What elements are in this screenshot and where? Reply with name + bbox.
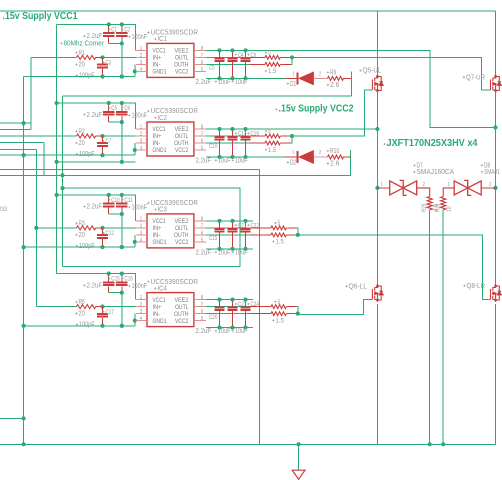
capacitor C9 — [245, 50, 247, 58]
pin 6 IC2 — [194, 142, 206, 144]
svg-text:2: 2 — [140, 131, 142, 137]
label R6 — [75, 301, 77, 303]
op-amp ic label row1 — [147, 31, 149, 33]
resistor R6 — [77, 305, 96, 309]
IC IC2 UCC5390SCDR body — [147, 122, 194, 156]
junction gnd bus row2 100pF line — [22, 153, 26, 157]
ground — [298, 444, 300, 470]
svg-text:C3: C3 — [106, 60, 112, 67]
wire row2 OUTH line — [206, 142, 250, 144]
wire row4 gnd line — [24, 325, 135, 327]
pin 3 IC2 — [136, 142, 147, 144]
wire stub drop x=43.8 — [43, 142, 45, 175]
op-amp ic label row4 — [147, 281, 149, 283]
pin 3 IC1 — [136, 63, 147, 65]
wire row1 gnd line — [24, 76, 135, 78]
svg-text:3: 3 — [140, 60, 142, 66]
junction IN+ bus / R3 lead — [34, 226, 38, 230]
pin 8 IC1 — [194, 49, 206, 51]
svg-text:VCC1: VCC1 — [153, 126, 166, 133]
svg-text:100nF: 100nF — [132, 204, 148, 211]
svg-text:3: 3 — [140, 138, 142, 144]
wire row2 gnd line — [0, 154, 135, 156]
svg-text:1.5: 1.5 — [268, 147, 277, 154]
pin 7 IC4 — [194, 306, 206, 308]
svg-text:2.2uF: 2.2uF — [196, 249, 212, 256]
junction bypass joint row3 — [120, 212, 124, 216]
junction gnd bus row4 100pF line — [22, 324, 26, 328]
wire VCC2 rail row2 — [63, 95, 352, 97]
capacitor C5 — [108, 103, 110, 112]
wire IC2 VEE2 line to Q5 source — [206, 128, 377, 130]
svg-text:C21: C21 — [238, 222, 247, 229]
op-amp ic label row2 — [147, 110, 149, 112]
svg-text:C15: C15 — [111, 276, 120, 283]
junction rail C2 — [120, 22, 124, 26]
svg-text:1: 1 — [140, 295, 142, 301]
capacitor C16 — [121, 274, 123, 283]
svg-text:4: 4 — [140, 316, 142, 322]
junction gnd C3 — [100, 75, 104, 79]
svg-text:C1: C1 — [111, 26, 117, 33]
wire R2 to pin2 — [103, 135, 141, 137]
svg-text:20: 20 — [79, 311, 85, 318]
svg-text:100pF: 100pF — [79, 243, 95, 250]
svg-text:2.2uF: 2.2uF — [87, 112, 103, 119]
wire IC1 VEE2 route to Q7 source — [206, 50, 496, 127]
wire row4 gate line to Q6 — [298, 299, 373, 314]
svg-text:C5: C5 — [111, 105, 117, 112]
svg-text:.15v Supply VCC1: .15v Supply VCC1 — [3, 11, 79, 22]
capacitor C6 — [121, 103, 123, 112]
capacitor C15 — [108, 274, 110, 283]
wire row1 pin3 tie — [134, 64, 136, 76]
wire row3 VEE2 line — [206, 220, 253, 222]
diode D1 — [286, 77, 298, 79]
capacitor C17 — [102, 307, 104, 314]
junction right bus / D8 — [493, 186, 497, 190]
junction bypass bus row2 rail — [55, 101, 59, 105]
svg-text:4: 4 — [140, 145, 142, 151]
svg-text:C23: C23 — [238, 301, 247, 308]
svg-text:100pF: 100pF — [79, 322, 95, 329]
svg-text:2.6: 2.6 — [330, 161, 339, 168]
svg-text:5: 5 — [201, 316, 203, 322]
svg-text:10uF: 10uF — [218, 328, 230, 335]
wire gate join row2 — [280, 142, 290, 144]
resistor gate 1.5 ohm row4 — [271, 312, 286, 316]
wire row3 OUTL line — [206, 227, 250, 229]
svg-text:20: 20 — [79, 140, 85, 147]
pin 8 IC2 — [194, 128, 206, 130]
svg-text:R10: R10 — [330, 148, 339, 155]
wire R3 lead — [36, 227, 76, 229]
svg-text:GND1: GND1 — [153, 239, 167, 246]
pin 5 IC3 — [194, 241, 206, 243]
svg-text:IN+: IN+ — [153, 304, 162, 311]
svg-text:GND1: GND1 — [153, 147, 167, 154]
pin 2 IC3 — [136, 227, 147, 229]
svg-text:2: 2 — [140, 223, 142, 229]
svg-text:6: 6 — [201, 60, 203, 66]
pin 7 IC1 — [194, 56, 206, 58]
svg-text:2.2uF: 2.2uF — [196, 328, 212, 335]
svg-text:8: 8 — [201, 125, 203, 131]
capacitor C1 — [108, 24, 110, 33]
capacitor C10 — [108, 195, 110, 204]
junction right bus / IC1 VEE route — [493, 125, 497, 129]
svg-text:100nF: 100nF — [132, 283, 148, 290]
label R2 — [75, 130, 77, 132]
wire R1 input vertical x=30.8 — [30, 57, 32, 129]
wire R10 out drop — [350, 150, 352, 175]
svg-text:6: 6 — [201, 231, 203, 237]
svg-text:10uF: 10uF — [235, 249, 247, 256]
svg-text:1.5: 1.5 — [276, 239, 285, 246]
svg-text:C10: C10 — [209, 143, 218, 150]
wire row1 OUTH line — [206, 63, 250, 65]
pin 5 IC1 — [194, 70, 206, 72]
svg-text:OUTL: OUTL — [175, 225, 189, 232]
IC IC3 UCC5390SCDR body — [147, 214, 194, 248]
svg-text:C2: C2 — [124, 26, 130, 33]
wire R6 lead — [36, 306, 76, 308]
svg-text:2: 2 — [423, 182, 425, 188]
pin 2 IC1 — [136, 56, 147, 58]
junction gnd C7 — [100, 153, 104, 157]
svg-text:3: 3 — [140, 309, 142, 315]
wire drop x=259.6 — [259, 170, 261, 445]
svg-text:1: 1 — [448, 182, 450, 188]
capacitor C10 — [219, 129, 221, 137]
svg-text:C6: C6 — [124, 105, 130, 112]
wire D8 pin1 to R26 — [443, 188, 454, 197]
svg-text:IN-: IN- — [153, 62, 161, 69]
junction gnd C17 — [100, 324, 104, 328]
svg-text:OUTL: OUTL — [175, 55, 189, 62]
op-amp ic label row3 — [147, 202, 149, 204]
svg-text:R3: R3 — [79, 220, 85, 227]
label bypass values row4 — [83, 284, 85, 286]
transistor Q7-UR — [491, 75, 502, 93]
resistor R10 — [328, 155, 344, 159]
junction rail C15 — [107, 272, 111, 276]
TVS diode D7 — [390, 180, 417, 195]
wire D8 pin2 lead — [481, 187, 495, 189]
junction R2 / C7 — [100, 134, 104, 138]
svg-text:80Mhz Corner: 80Mhz Corner — [64, 38, 105, 47]
svg-text:C12: C12 — [106, 230, 115, 237]
svg-text:5: 5 — [278, 299, 281, 306]
svg-text:100nF: 100nF — [132, 112, 148, 119]
junction gnd C12 — [100, 245, 104, 249]
svg-text:Q8-LR: Q8-LR — [467, 283, 486, 290]
wire left stub y=142.3 — [0, 141, 44, 143]
svg-text:6: 6 — [201, 139, 203, 145]
svg-text:OUTH: OUTH — [174, 311, 189, 318]
label R3 — [75, 222, 77, 224]
svg-text:IC4: IC4 — [158, 285, 167, 292]
wire D7 anode lead — [377, 187, 389, 189]
svg-text:C4: C4 — [238, 52, 244, 59]
wire row1 gate line to Q7 — [292, 57, 491, 89]
pin 2 IC2 — [136, 135, 147, 137]
svg-text:20: 20 — [79, 61, 85, 68]
junction gnd bus row3 100pF line — [22, 245, 26, 249]
svg-text:1: 1 — [140, 46, 142, 52]
wire R3 to pin2 — [103, 227, 141, 229]
svg-text:6: 6 — [201, 309, 203, 315]
capacitor C7 — [102, 136, 104, 143]
svg-text:R9: R9 — [330, 69, 336, 76]
svg-text:C15: C15 — [209, 235, 218, 242]
svg-text:2: 2 — [140, 302, 142, 308]
svg-text:GND1: GND1 — [153, 318, 167, 325]
capacitor C19 — [245, 129, 247, 137]
TVS diode D8 — [454, 180, 481, 195]
label .15v Supply VCC2 — [275, 108, 277, 110]
wire row3 gate line to Q8 — [298, 235, 491, 299]
pin 3 IC3 — [136, 234, 147, 236]
svg-text:JXFT170N25X3HV x4: JXFT170N25X3HV x4 — [387, 138, 479, 149]
wire row1 OUTL line — [206, 56, 250, 58]
svg-text:C14: C14 — [238, 130, 247, 137]
svg-text:100pF: 100pF — [79, 72, 95, 79]
capacitor C12 — [102, 228, 104, 235]
pin 1 IC1 — [136, 49, 147, 51]
svg-text:10uF: 10uF — [235, 328, 247, 335]
svg-text:OUTL: OUTL — [175, 304, 189, 311]
junction left stub / left gnd bus — [22, 416, 26, 420]
junction center bus / IC2 VEE line — [375, 127, 379, 131]
svg-text:VCC2: VCC2 — [175, 147, 189, 154]
label R1 — [75, 52, 77, 54]
junction bottom bus / R26 — [441, 442, 445, 446]
junction bypass joint row4 — [120, 291, 124, 295]
svg-text:VCC2: VCC2 — [175, 318, 189, 325]
wire row3 gnd line — [24, 246, 135, 248]
wire row4 OUTL line — [206, 306, 250, 308]
svg-text:IC2: IC2 — [158, 115, 167, 122]
svg-text:VEE2: VEE2 — [175, 48, 189, 55]
capacitor C4 — [232, 50, 234, 58]
svg-text:8: 8 — [201, 217, 203, 223]
wire VCC1 top rail — [0, 10, 496, 12]
wire left stub y=418 — [0, 417, 24, 419]
svg-text:SMAJ1: SMAJ1 — [484, 169, 500, 176]
svg-text:7: 7 — [201, 302, 203, 308]
pin 1 IC3 — [136, 220, 147, 222]
pin 4 IC4 — [136, 320, 147, 322]
svg-text:OUTH: OUTH — [174, 232, 189, 239]
wire left gnd bus x=23.6 — [23, 77, 25, 445]
resistor R26 — [441, 197, 446, 210]
wire R6 to pin2 — [103, 306, 141, 308]
wire gate join row4 — [286, 306, 296, 308]
svg-text:100nF: 100nF — [132, 34, 148, 41]
svg-text:VEE2: VEE2 — [175, 297, 189, 304]
svg-text:IC1: IC1 — [158, 36, 167, 43]
wire row2 bypass bottoms — [109, 122, 122, 162]
svg-text:2.2uF: 2.2uF — [196, 79, 212, 86]
pin 7 IC2 — [194, 135, 206, 137]
svg-text:100pF: 100pF — [79, 151, 95, 158]
junction bypass joint row1 — [120, 41, 124, 45]
svg-text:3: 3 — [140, 230, 142, 236]
capacitor C23 — [232, 300, 234, 308]
junction bottom bus / R25 — [428, 442, 432, 446]
wire Q7 source down to Q8 drain — [495, 93, 497, 287]
label D8 — [481, 164, 483, 166]
wire center drain bus rail to Q5 — [376, 11, 378, 77]
resistor gate 1.5 ohm row1 — [265, 63, 280, 67]
wire left stub y=149.5 to IN bus — [0, 149, 36, 151]
wire Q6 source down to bottom bus — [376, 304, 378, 444]
wire gate join row3 — [286, 227, 296, 229]
junction rail C10 — [107, 193, 111, 197]
wire row4 VEE2 line — [206, 299, 253, 301]
svg-text:2.6: 2.6 — [330, 82, 339, 89]
svg-text:2: 2 — [319, 72, 321, 78]
pin 6 IC3 — [194, 234, 206, 236]
svg-text:2: 2 — [319, 150, 321, 156]
wire R26 to bottom bus — [442, 210, 444, 444]
wire row4 pin3 tie — [134, 314, 136, 326]
pin 4 IC2 — [136, 149, 147, 151]
junction rail C11 — [120, 193, 124, 197]
svg-text:IN+: IN+ — [153, 225, 162, 232]
svg-text:2: 2 — [140, 53, 142, 59]
wire left stub y=123.2 — [0, 122, 31, 124]
svg-text:10uF: 10uF — [235, 79, 247, 86]
svg-text:IN-: IN- — [153, 232, 161, 239]
resistor gate 5 ohm row4 — [271, 305, 286, 309]
capacitor C5 — [219, 50, 221, 58]
svg-text:7: 7 — [201, 132, 203, 138]
resistor gate 5 ohm row2 — [265, 134, 280, 138]
svg-text:R6: R6 — [79, 299, 85, 306]
wire VCC bypass bus x=56.6 — [56, 24, 58, 273]
svg-text:VEE2: VEE2 — [175, 218, 189, 225]
svg-text:4: 4 — [140, 237, 142, 243]
resistor R2 — [0, 135, 77, 137]
wire IN+ bus x=36.3 for R3/R6 — [35, 150, 37, 307]
junction R3 / C12 — [100, 226, 104, 230]
svg-text:1.5: 1.5 — [268, 68, 277, 75]
svg-text:OUTH: OUTH — [174, 140, 189, 147]
wire VCC2 loop row3/row4 — [63, 188, 241, 266]
svg-text:2: 2 — [489, 182, 491, 188]
pin 2 IC4 — [136, 306, 147, 308]
label bypass values row3 — [83, 205, 85, 207]
label bypass values row2 — [83, 114, 85, 116]
svg-text:VCC1: VCC1 — [153, 48, 166, 55]
resistor gate 5 ohm row3 — [271, 226, 286, 230]
svg-text:D1: D1 — [290, 81, 296, 88]
svg-text:C19: C19 — [251, 130, 260, 137]
wire row3 OUTH line — [206, 234, 250, 236]
svg-text:8: 8 — [201, 295, 203, 301]
capacitor C20 — [219, 300, 221, 308]
svg-text:VCC2: VCC2 — [175, 239, 189, 246]
capacitor C24 — [245, 300, 247, 308]
wire row1 bypass bottoms — [109, 44, 122, 77]
transistor Q8-LR — [491, 284, 502, 302]
svg-text:R2: R2 — [79, 128, 85, 135]
svg-text:C10: C10 — [111, 197, 120, 204]
resistor R3 — [77, 226, 96, 230]
svg-text:7: 7 — [201, 224, 203, 230]
wire row2 gate line to Q5 — [292, 90, 372, 136]
wire row2 bypass rail — [57, 103, 136, 129]
wire VCC2 feed vertical x=62.5 — [62, 96, 64, 266]
wire row4 bypass bottoms — [109, 293, 122, 326]
svg-text:2.2uF: 2.2uF — [87, 282, 103, 289]
wire row2 pin3 tie — [134, 143, 136, 155]
svg-text:IN+: IN+ — [153, 55, 162, 62]
svg-text:1: 1 — [381, 182, 383, 188]
wire left stub y=129.6 — [0, 129, 31, 131]
wire bottom bus — [0, 443, 496, 445]
capacitor C14 — [232, 129, 234, 137]
svg-text:VCC2: VCC2 — [175, 69, 189, 76]
resistor gate 5 ohm row1 — [265, 56, 280, 60]
capacitor C15 — [219, 221, 221, 229]
resistor R9 — [328, 76, 344, 80]
junction rail C6 — [120, 101, 124, 105]
wire row3 VCC2/pin5 line — [206, 248, 253, 250]
svg-text:1: 1 — [292, 150, 294, 156]
svg-text:10uF: 10uF — [218, 157, 230, 164]
resistor gate 1.5 ohm row2 — [265, 141, 280, 145]
svg-text:Q6-LL: Q6-LL — [349, 283, 368, 290]
wire row4 OUTH line — [206, 313, 250, 315]
junction bottom bus / ground stub — [297, 442, 301, 446]
svg-text:SMAJ160CA: SMAJ160CA — [417, 169, 455, 176]
svg-text:C24: C24 — [251, 301, 260, 308]
pin 7 IC3 — [194, 227, 206, 229]
junction VCC2 feed / R10 line — [60, 173, 64, 177]
svg-text:C7: C7 — [106, 138, 112, 145]
wire Q8 source down to bottom bus — [495, 304, 497, 444]
svg-text:R25: R25 — [421, 203, 428, 212]
pin 1 IC4 — [136, 299, 147, 301]
transistor Q5-UL — [372, 75, 383, 93]
svg-text:R26: R26 — [435, 203, 442, 212]
label D7 — [413, 164, 415, 166]
svg-text:R1: R1 — [79, 50, 85, 57]
pin 4 IC3 — [136, 241, 147, 243]
wire row2 VEE local line — [57, 161, 136, 163]
svg-text:C5: C5 — [209, 65, 215, 72]
svg-text:VCC1: VCC1 — [153, 218, 166, 225]
svg-text:10uF: 10uF — [218, 249, 230, 256]
svg-text:8: 8 — [201, 46, 203, 52]
junction bypass bus row3 rail — [55, 193, 59, 197]
wire row1 bypass rail — [57, 24, 136, 50]
svg-text:VEE2: VEE2 — [175, 126, 189, 133]
svg-text:20: 20 — [79, 232, 85, 239]
junction bypass joint row2 — [120, 120, 124, 124]
svg-text:5: 5 — [268, 50, 271, 57]
svg-text:10uF: 10uF — [235, 157, 247, 164]
wire row3 bypass bottoms — [109, 214, 122, 247]
junction R6 / C17 — [100, 305, 104, 309]
junction rail C1 — [107, 22, 111, 26]
svg-text:7: 7 — [201, 53, 203, 59]
wire row3 bypass rail — [57, 195, 136, 221]
pin 4 IC1 — [136, 70, 147, 72]
